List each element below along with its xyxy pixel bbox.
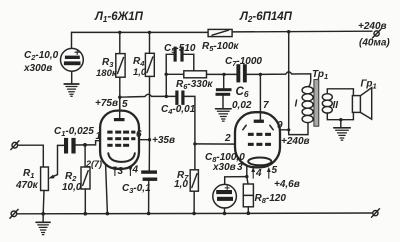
- svg-text:+240в: +240в: [358, 21, 387, 32]
- capacitor C1: [64, 138, 76, 154]
- svg-text:4: 4: [255, 168, 262, 179]
- wire R2 bottom lead: [84, 189, 86, 214]
- node anode L2: [259, 73, 262, 76]
- node rail-screen-drop: [287, 30, 290, 33]
- tube L1 envelope: [100, 111, 139, 169]
- wire L1 anode lead pin5: [119, 97, 121, 118]
- svg-text:+35в: +35в: [152, 135, 175, 146]
- svg-text:+75в: +75в: [95, 98, 118, 109]
- wire rail ground lead: [42, 214, 44, 222]
- wire top rail right segment: [232, 30, 372, 33]
- wire L1 pin1 stub: [85, 141, 100, 145]
- node pin9 tap: [287, 128, 290, 131]
- resistor R3: [116, 54, 125, 78]
- node feedback-C5: [165, 95, 168, 98]
- svg-text:2: 2: [224, 133, 231, 144]
- wire grid L2: [195, 143, 240, 145]
- svg-text:Л2-6П14П: Л2-6П14П: [239, 11, 293, 24]
- svg-text:C1-0,025: C1-0,025: [54, 126, 94, 138]
- node secondary ground tap: [339, 118, 342, 121]
- svg-text:(40ма): (40ма): [359, 38, 390, 49]
- resistor R6: [184, 71, 207, 78]
- node C6 tap: [222, 73, 225, 76]
- ground main rail: [36, 222, 50, 234]
- node R3-screen: [118, 96, 121, 99]
- wire secondary top to speaker: [327, 89, 353, 96]
- node rail C8: [223, 212, 227, 216]
- node rail R7: [192, 212, 196, 216]
- svg-text:Тр1: Тр1: [312, 69, 328, 81]
- capacitor C5: [174, 47, 184, 62]
- pin 4 arrow L2: [251, 167, 255, 178]
- wire L1 pin6 stub: [139, 139, 150, 141]
- node rail R2: [84, 212, 88, 216]
- wire C4 net vertical: [185, 96, 195, 169]
- wire R4 bottom to pin6: [149, 76, 151, 139]
- wire C5 left lead: [166, 54, 173, 96]
- loudspeaker Gr1: [352, 88, 371, 120]
- wire R6 left lead: [166, 73, 184, 75]
- pin 3 arrow L1: [113, 167, 117, 176]
- svg-text:R5-100к: R5-100к: [202, 41, 239, 53]
- svg-text:9: 9: [277, 120, 283, 131]
- svg-text:6: 6: [136, 129, 142, 140]
- svg-text:180к: 180к: [96, 68, 118, 79]
- svg-text:х300в: х300в: [23, 63, 52, 74]
- pin 5 arrow L2: [267, 167, 271, 178]
- wire R8 bottom lead: [247, 207, 249, 213]
- svg-text:+240в: +240в: [281, 136, 310, 147]
- capacitor C4: [175, 91, 184, 105]
- pin 4 arrow L1: [128, 167, 132, 176]
- svg-text:C4-0,01: C4-0,01: [161, 104, 196, 116]
- transformer secondary winding II: [322, 94, 332, 113]
- svg-text:+4,6в: +4,6в: [274, 179, 300, 190]
- svg-text:2(7): 2(7): [85, 159, 102, 169]
- node rail R1: [41, 212, 45, 216]
- wire R6 to C7: [207, 73, 237, 75]
- wire L1 cathode pin2 drop: [106, 165, 108, 214]
- capacitor C3: [141, 170, 157, 181]
- wire R3 bottom to pin5: [119, 77, 121, 110]
- wire C8 top lead: [225, 177, 247, 185]
- wire R8 top lead: [247, 177, 248, 184]
- svg-text:I: I: [295, 99, 298, 110]
- tube L2 beam ticks: [243, 125, 273, 129]
- svg-text:4: 4: [132, 165, 139, 176]
- svg-text:470к: 470к: [15, 180, 39, 191]
- terminal bottom right: [372, 209, 380, 217]
- wire C2 bottom lead: [71, 71, 73, 83]
- terminal input bottom: [10, 209, 18, 218]
- svg-text:0,02: 0,02: [232, 100, 252, 111]
- terminal +240v: [373, 29, 381, 37]
- svg-text:1,0: 1,0: [133, 67, 147, 78]
- node grid L2: [193, 142, 196, 145]
- resistor R2: [81, 167, 90, 189]
- wire C5 right lead: [184, 54, 194, 71]
- svg-text:7: 7: [263, 100, 269, 111]
- node rail C3: [147, 212, 151, 216]
- node C1-R2-grid: [83, 143, 87, 147]
- svg-text:II: II: [333, 100, 339, 111]
- wire R7 bottom lead: [193, 191, 195, 213]
- svg-text:C2-10,0: C2-10,0: [24, 50, 59, 62]
- wire R2 top lead: [84, 145, 86, 167]
- wire L2 anode lead inside: [259, 112, 261, 119]
- resistor R7: [190, 170, 198, 191]
- capacitor C6: [216, 74, 232, 108]
- wire ground tap lead: [340, 120, 342, 128]
- svg-text:Л1-6Ж1П: Л1-6Ж1П: [94, 11, 144, 24]
- wire C7 to anode node: [247, 73, 260, 75]
- svg-text:1,0: 1,0: [174, 179, 188, 190]
- wire secondary bottom to speaker: [327, 113, 353, 120]
- svg-text:C3-0,1: C3-0,1: [122, 183, 151, 195]
- svg-text:5: 5: [122, 99, 128, 110]
- tube L2 envelope: [235, 112, 280, 167]
- capacitor C7: [236, 64, 246, 82]
- node cathode junction: [245, 175, 248, 178]
- wire R1 wiper: [48, 145, 57, 178]
- transformer core: [314, 80, 319, 127]
- svg-text:3: 3: [118, 166, 124, 177]
- wire C2 top lead: [71, 32, 73, 48]
- resistor R8: [243, 184, 253, 207]
- node rail R8: [247, 211, 251, 215]
- svg-text:Гр1: Гр1: [361, 79, 377, 91]
- ground below C6: [216, 109, 232, 121]
- wire L2 cathode pin3: [246, 166, 248, 176]
- wire R4 top lead: [149, 32, 151, 53]
- resistor R1 potentiometer: [41, 167, 49, 191]
- wire screen drop +240v: [289, 32, 308, 135]
- wire C3 top lead: [148, 140, 150, 171]
- node rail L1 cathode: [106, 212, 110, 216]
- svg-text:х30в: х30в: [212, 162, 236, 173]
- wire input to R1: [18, 145, 44, 167]
- svg-text:R1: R1: [23, 168, 34, 180]
- svg-text:1: 1: [96, 131, 102, 142]
- svg-text:10,0: 10,0: [62, 182, 82, 193]
- ground below C2: [64, 84, 79, 96]
- wire R3 top lead: [119, 32, 121, 53]
- tube L1 grid rows: [107, 131, 135, 147]
- wire C1 right lead: [76, 144, 85, 146]
- wire C3 bottom lead: [148, 181, 150, 214]
- node pin6: [148, 138, 151, 141]
- wire R1 bottom lead: [42, 191, 45, 214]
- node rail-R3: [118, 31, 121, 34]
- wire C1 left lead: [58, 144, 65, 146]
- tube L2 cathode: [248, 158, 271, 166]
- tube L1 anode: [114, 118, 125, 121]
- wire L2 pin9 stub: [280, 129, 289, 131]
- svg-text:R8-120: R8-120: [255, 193, 287, 205]
- tube L2 anode: [254, 120, 264, 123]
- node C5-R6: [165, 73, 168, 76]
- wire screen feedback with hop over R4 lead: [120, 94, 176, 97]
- svg-text:C6: C6: [236, 86, 249, 99]
- resistor R5: [208, 29, 232, 36]
- svg-text:R6-330к: R6-330к: [176, 79, 213, 91]
- svg-text:C7-1000: C7-1000: [225, 56, 262, 68]
- svg-text:3: 3: [237, 162, 243, 173]
- capacitor C2: [61, 48, 84, 71]
- svg-text:5: 5: [272, 165, 278, 176]
- ground below secondary: [334, 128, 350, 140]
- transformer Tr1 primary winding I: [302, 87, 313, 123]
- wire top rail left segment: [72, 31, 209, 33]
- resistor R4: [145, 53, 154, 76]
- terminal input top: [11, 141, 19, 150]
- svg-text:C5-510: C5-510: [164, 43, 196, 55]
- tube L2 screen grid row: [248, 133, 271, 146]
- node rail-R4: [148, 31, 151, 34]
- tube L1 cathode: [108, 153, 135, 162]
- capacitor C8: [213, 184, 237, 208]
- wire bottom rail: [17, 212, 373, 215]
- wire pin7 drop: [259, 74, 261, 112]
- wire C8 bottom lead: [224, 208, 226, 213]
- wire anode node to primary with hop: [260, 72, 310, 87]
